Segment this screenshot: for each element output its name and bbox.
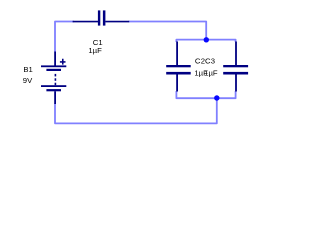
- svg-text:C3: C3: [205, 56, 215, 65]
- wire: parallel loop bottom rail: [176, 91, 235, 98]
- node: bottom junction dot: [214, 95, 219, 100]
- svg-text:B1: B1: [23, 65, 32, 74]
- svg-text:1µF: 1µF: [204, 68, 218, 77]
- wire: top-left corner from battery up to C1: [55, 22, 236, 124]
- battery B1: [41, 52, 66, 105]
- capacitor C2: [166, 42, 191, 92]
- wire: parallel loop top rail: [176, 40, 235, 42]
- svg-text:1µF: 1µF: [88, 46, 102, 55]
- plus sign of battery: [60, 61, 66, 63]
- wire: C1 right lead to top junction, down to top dot: [129, 22, 207, 39]
- svg-text:C2: C2: [195, 56, 205, 65]
- wire: bottom return rail from bottom dot to battery: [55, 99, 217, 123]
- svg-text:9V: 9V: [23, 76, 33, 85]
- capacitor C1: [73, 10, 130, 25]
- capacitor C3: [223, 42, 248, 92]
- node: top junction dot: [204, 37, 209, 42]
